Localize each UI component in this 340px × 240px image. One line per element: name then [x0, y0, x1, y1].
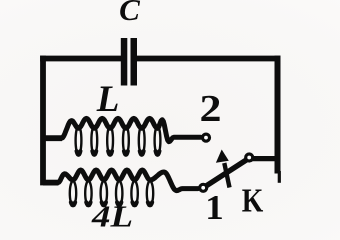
wire left vertical [40, 56, 46, 186]
svg-text:1: 1 [205, 188, 224, 227]
wire top-right: capacitor to right corner [137, 56, 281, 62]
wire pivot to right vertical [249, 156, 276, 161]
right wire pen-lift tail [278, 171, 281, 183]
switch K lever from contact 1 to pivot [207, 159, 248, 185]
switch throw arrow shaft [224, 163, 229, 188]
wire right vertical [275, 56, 281, 174]
svg-text:4L: 4L [91, 199, 133, 234]
inductor L winding top curve [62, 118, 201, 141]
capacitor C left plate [121, 38, 128, 86]
wire stub to inductor L [43, 135, 62, 141]
svg-text:C: C [119, 0, 140, 27]
wire stub to inductor 4L [43, 180, 59, 186]
node switch pivot [246, 154, 253, 161]
svg-text:2: 2 [200, 88, 222, 130]
inductor 4L winding loops [70, 181, 76, 205]
inductor 4L winding top curve [58, 170, 198, 191]
svg-text:L: L [96, 79, 120, 120]
node contact 1 open terminal [200, 184, 207, 191]
wire top-left: left corner to capacitor [40, 56, 121, 62]
svg-text:K: K [242, 183, 264, 220]
node contact 2 open terminal [203, 134, 210, 141]
switch throw arrow head [216, 150, 229, 163]
inductor L winding loops [76, 126, 82, 155]
capacitor C right plate [131, 38, 138, 86]
